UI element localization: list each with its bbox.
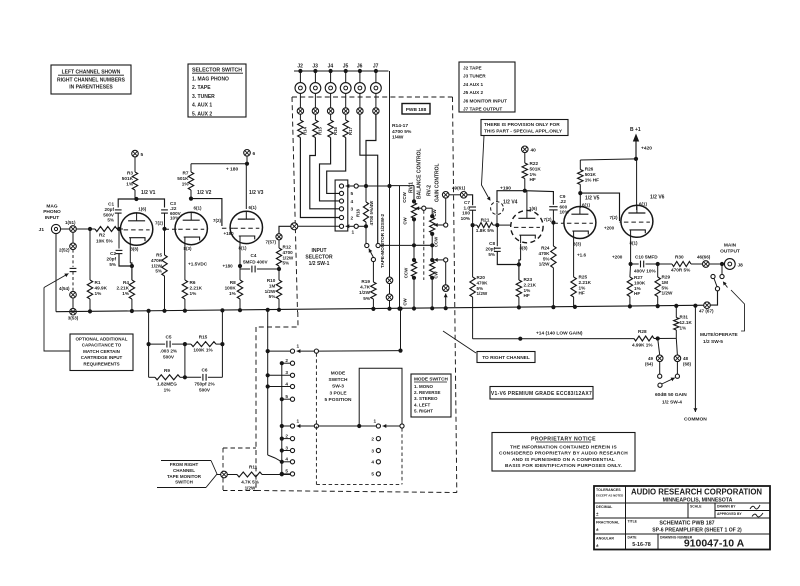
svg-text:C10 5MFD: C10 5MFD — [635, 255, 658, 260]
node J5 bus junction — [344, 69, 348, 73]
switch SW-3 pole2 wiper — [297, 425, 315, 427]
switch SW-3 pole3 contact 2 — [376, 437, 380, 441]
wire SW-5 to bus eyelet — [710, 291, 717, 305]
svg-text:J1: J1 — [39, 227, 45, 233]
svg-text:(68): (68) — [683, 361, 692, 366]
svg-text:R30: R30 — [675, 255, 684, 260]
switch SW-3 pole1 contact 2 — [290, 361, 294, 365]
svg-text:SCALE: SCALE — [690, 505, 702, 509]
stub pole2-1 — [282, 425, 291, 427]
capacitor C4 — [240, 268, 250, 270]
svg-text:R20: R20 — [477, 275, 486, 280]
svg-text:R24: R24 — [541, 246, 550, 251]
svg-text:400V 10%: 400V 10% — [634, 269, 656, 274]
svg-text:J8: J8 — [738, 263, 744, 269]
svg-text:CW: CW — [403, 297, 408, 305]
svg-text:HF: HF — [524, 293, 530, 298]
feedthrough eyelet 5 — [132, 150, 139, 157]
wire supply rail to R26 — [580, 159, 636, 160]
svg-text:1/2 V2: 1/2 V2 — [197, 190, 212, 196]
node V2 grid — [162, 227, 166, 231]
resistor R29 — [657, 264, 659, 277]
svg-text:1/2W: 1/2W — [283, 255, 294, 260]
svg-text:4700 5%: 4700 5% — [392, 129, 412, 135]
wire main ground bus — [56, 305, 707, 312]
wire J1 to feedthrough 1(51) — [61, 228, 70, 230]
svg-text:HF: HF — [579, 291, 585, 296]
svg-text:R15: R15 — [318, 127, 323, 135]
svg-text:1/2W: 1/2W — [539, 262, 550, 267]
wire C7 to R21 node — [472, 210, 474, 225]
triode V2 plate — [190, 212, 192, 220]
svg-text:B +1: B +1 — [630, 127, 641, 133]
svg-text:5-16-78: 5-16-78 — [632, 542, 651, 548]
feedthrough eyelet 3(53) — [70, 308, 77, 315]
feedthrough eyelet right channel gain — [442, 285, 449, 292]
resistor R30 — [672, 262, 691, 267]
potentiometer RV-1 upper wiper — [416, 207, 422, 209]
svg-text:470K: 470K — [539, 251, 551, 256]
svg-text:MAIN: MAIN — [724, 243, 737, 249]
svg-text:1(51): 1(51) — [65, 220, 76, 225]
potentiometer RV-1 upper element — [413, 186, 415, 203]
wire J6 below feedthrough — [359, 114, 361, 120]
svg-text:J4: J4 — [328, 64, 334, 70]
svg-text:SCHEMATIC PWB 187: SCHEMATIC PWB 187 — [659, 521, 714, 527]
triode V5 plate — [579, 206, 581, 214]
wire J2 below feedthrough — [299, 114, 301, 120]
svg-text:3(53): 3(53) — [68, 316, 79, 321]
jack J8 main output — [724, 259, 735, 270]
svg-text:5 POSITION: 5 POSITION — [325, 397, 352, 403]
resistor R25 — [571, 277, 576, 297]
wire to SW-4 eyelet a — [658, 339, 660, 356]
svg-text:J7: J7 — [373, 64, 379, 70]
svg-text:5: 5 — [141, 152, 144, 158]
wire riser to ground bus — [389, 301, 391, 311]
svg-text:TITLE: TITLE — [628, 520, 638, 524]
triode V5 cathode — [572, 231, 588, 234]
svg-text:49(61): 49(61) — [452, 186, 466, 191]
svg-text:SP-6 PREAMPLIFIER (SHEET 1 O: SP-6 PREAMPLIFIER (SHEET 1 OF 2) — [652, 528, 742, 534]
svg-text:1: 1 — [297, 344, 300, 349]
svg-text:1%: 1% — [126, 182, 134, 187]
wire flag to eyelet — [217, 474, 221, 476]
switch SW-3 pole1 contact 4 — [290, 384, 294, 388]
stub pole1-3 — [268, 374, 291, 376]
resistor R15 eq — [191, 342, 216, 347]
svg-text:10%: 10% — [461, 216, 471, 221]
svg-text:SW-3: SW-3 — [332, 384, 344, 390]
svg-text:R19: R19 — [361, 279, 370, 284]
svg-text:OUTPUT: OUTPUT — [720, 248, 740, 254]
grid cap V4 (dashed provision) — [491, 202, 504, 215]
switch SW-2 wiper — [371, 257, 375, 261]
svg-text:100K: 100K — [634, 280, 646, 285]
switch SW-3 pole1 wiper — [297, 350, 315, 352]
capacitor C8 — [496, 225, 498, 246]
svg-text:LEFT CHANNEL SHOWN: LEFT CHANNEL SHOWN — [62, 70, 121, 76]
wire optional capacitance note — [44, 288, 70, 352]
svg-text:R11: R11 — [249, 465, 258, 470]
jack J7 connector — [375, 71, 377, 83]
svg-text:501K: 501K — [530, 166, 542, 171]
bus junction — [517, 305, 521, 309]
stub pole1-4 — [268, 386, 291, 388]
node J3 bus junction — [313, 69, 317, 73]
triode V3 grid — [233, 227, 259, 229]
svg-text:SELECTOR SWITCH: SELECTOR SWITCH — [192, 68, 242, 74]
svg-text:V1-V6 PREMIUM GRADE ECC83/12A: V1-V6 PREMIUM GRADE ECC83/12AX7 — [491, 391, 592, 397]
svg-text:+180: +180 — [223, 264, 234, 269]
svg-text:3. TUNER: 3. TUNER — [192, 94, 215, 100]
switch SW-1 contact 1 — [339, 224, 343, 228]
switch SW-3 pole2 contact 4 — [290, 460, 294, 464]
svg-text:1/2 SW-4: 1/2 SW-4 — [662, 400, 682, 406]
svg-text:4: 4 — [285, 381, 288, 386]
feedthrough eyelet 40 — [522, 146, 529, 153]
switch SW-1 input selector body — [335, 180, 348, 231]
svg-text:5: 5 — [285, 469, 288, 474]
svg-text:SELECTOR: SELECTOR — [305, 255, 333, 261]
capacitor C5 — [149, 343, 166, 345]
feedthrough eyelet tape return — [221, 471, 228, 478]
svg-text:R16: R16 — [333, 127, 338, 135]
switch SW-1 contact 5 — [339, 191, 343, 195]
svg-text:1%: 1% — [524, 288, 532, 293]
node V4 plate supply — [523, 189, 527, 193]
label PWB 188 — [402, 104, 430, 115]
switch SW-5 contact b — [720, 274, 724, 278]
bus junction — [397, 307, 401, 311]
svg-text:20pf: 20pf — [486, 247, 496, 252]
feedthrough eyelet 2(52) — [72, 232, 74, 243]
wire gain wiper up to feedthrough — [445, 198, 447, 223]
leader to right channel note — [443, 331, 476, 353]
svg-text:MODE SWITCH: MODE SWITCH — [414, 377, 448, 382]
wire J4 to feedthrough — [330, 93, 332, 107]
svg-text:5%: 5% — [107, 218, 114, 223]
note box: to right channel — [477, 352, 535, 363]
svg-text:5%: 5% — [543, 256, 550, 261]
switch SW-4 wiper contact — [658, 383, 662, 387]
svg-text:1% HF: 1% HF — [585, 177, 599, 182]
svg-text:MATCH CERTAIN: MATCH CERTAIN — [83, 349, 120, 354]
feedthrough eyelet at board edge — [291, 223, 298, 230]
wire J4 below feedthrough — [330, 114, 332, 120]
wire SW-2 to balance control — [380, 244, 414, 246]
feedthrough eyelet below J4 — [327, 108, 333, 114]
triode V2 grid — [178, 228, 204, 230]
wire EQ network left riser — [148, 311, 150, 377]
svg-text:3: 3 — [351, 207, 354, 213]
svg-text:.003 2%: .003 2% — [160, 349, 178, 354]
wire V6 plate lead — [636, 159, 638, 210]
svg-text:R3: R3 — [127, 171, 133, 176]
wire V5 cathode — [573, 239, 575, 277]
svg-text:4700 5%/4W: 4700 5%/4W — [369, 200, 374, 226]
triode V1 cathode — [129, 238, 145, 241]
svg-text:J7 TAPE OUTPUT: J7 TAPE OUTPUT — [463, 107, 502, 112]
svg-text:49: 49 — [648, 356, 654, 361]
triode V3 envelope — [230, 211, 262, 243]
note box: proprietary notice — [492, 433, 635, 472]
title block frame — [594, 486, 770, 550]
wire V5 plate lead — [579, 193, 581, 208]
wire J3 to selector contact 3 — [310, 138, 340, 209]
svg-text:2.21K: 2.21K — [116, 286, 129, 291]
wire balance left rail — [399, 186, 401, 310]
svg-text:500V: 500V — [199, 388, 211, 393]
svg-text:2(52): 2(52) — [59, 248, 70, 253]
potentiometer RV-1 lower element (right channel) — [413, 245, 415, 261]
svg-text:J4 AUX 1: J4 AUX 1 — [463, 82, 484, 87]
svg-text:4700: 4700 — [283, 250, 294, 255]
resistor R1 — [89, 229, 91, 280]
arrow pointing to optional capacitor — [44, 274, 69, 288]
svg-text:3(8): 3(8) — [130, 247, 139, 252]
wire wiper bottom node — [358, 225, 366, 227]
wire mode feed riser a — [267, 310, 269, 455]
wire wiper to gain pot — [426, 207, 432, 209]
stub pole2-5 — [282, 473, 291, 475]
svg-text:12.1K: 12.1K — [680, 320, 693, 325]
node V5 grid — [551, 220, 555, 224]
triode V6 plate — [636, 205, 638, 213]
svg-text:1: 1 — [352, 230, 355, 236]
svg-text:R7: R7 — [183, 171, 189, 176]
wire feedback line +14 — [473, 338, 634, 340]
svg-text:CONSIDERED PROPRIETARY BY AUDI: CONSIDERED PROPRIETARY BY AUDIO RESEARCH — [499, 451, 628, 457]
svg-text:1/2 V5: 1/2 V5 — [585, 196, 600, 202]
svg-text:(64): (64) — [645, 361, 654, 366]
svg-text:1(6): 1(6) — [529, 206, 538, 211]
wire V2 cathode — [184, 245, 186, 280]
wire R30 to output eyelet — [691, 263, 702, 265]
svg-text:4: 4 — [285, 457, 288, 462]
wire to SW-4 eyelet b — [676, 338, 677, 355]
resistor R14 — [298, 120, 303, 138]
triode V1 envelope — [120, 213, 152, 245]
switch SW-1 wiper top — [346, 185, 357, 187]
svg-text:J6: J6 — [357, 64, 363, 70]
svg-text:MUTE/OPERATE: MUTE/OPERATE — [700, 332, 739, 338]
potentiometer RV-2 lower wiper — [434, 259, 444, 261]
dashed PWB board outline lower-left edge — [255, 327, 257, 491]
wire input line — [76, 228, 95, 230]
stub pole2-3 — [282, 450, 291, 452]
svg-text:5%: 5% — [488, 252, 495, 257]
svg-text:8(3): 8(3) — [573, 242, 582, 247]
feedthrough eyelet below J6 — [357, 108, 363, 114]
svg-text:5: 5 — [285, 394, 288, 399]
resistor R2 — [95, 227, 117, 232]
svg-text:MODE: MODE — [331, 371, 346, 377]
node V1 grid — [117, 227, 121, 231]
jack J6 connector — [359, 71, 361, 83]
resistor R18 — [365, 186, 367, 202]
feedthrough eyelet on riser upper — [386, 277, 393, 284]
node V4 grid — [495, 223, 499, 227]
switch SW-4 contact a — [659, 362, 661, 374]
node tape output feed — [277, 267, 281, 271]
svg-text:1%: 1% — [634, 286, 642, 291]
triode V3 cathode — [239, 236, 255, 239]
svg-text:R18: R18 — [355, 208, 360, 216]
svg-text:60dB 50 GAIN: 60dB 50 GAIN — [655, 392, 687, 398]
switch SW-4 contact b — [676, 362, 678, 374]
triode V4 grid — [514, 226, 540, 228]
stub pole2-2 — [282, 438, 291, 440]
svg-text:5%: 5% — [155, 269, 162, 274]
title block inner lines — [594, 502, 770, 504]
note box: selector switch legend — [188, 64, 246, 117]
triode V5 envelope — [564, 207, 596, 239]
svg-text:1%: 1% — [122, 291, 130, 296]
svg-text:R9: R9 — [164, 368, 170, 373]
svg-text:1/2W: 1/2W — [477, 291, 488, 296]
svg-text:FROM RIGHT: FROM RIGHT — [170, 462, 199, 467]
wire V1 cathode — [129, 246, 131, 263]
svg-text:4. AUX 1: 4. AUX 1 — [192, 103, 212, 109]
svg-text:HF: HF — [530, 177, 536, 182]
wire jack bus drop to selector area — [389, 71, 391, 186]
svg-text:4.7K: 4.7K — [360, 285, 371, 290]
svg-text:+420: +420 — [641, 146, 652, 152]
svg-text:DECIMAL: DECIMAL — [596, 505, 613, 509]
svg-text:1%: 1% — [182, 182, 190, 187]
svg-text:R8: R8 — [230, 280, 236, 285]
resistor R21 — [477, 223, 493, 228]
svg-text:INPUT: INPUT — [312, 248, 327, 254]
svg-text:EXCEPT AS NOTED: EXCEPT AS NOTED — [596, 494, 623, 498]
jack J2 connector — [299, 71, 301, 83]
resistor R3 — [134, 157, 136, 172]
svg-text:CAPACITANCE TO: CAPACITANCE TO — [82, 343, 122, 348]
switch SW-3 pole3 contact 1 — [376, 424, 380, 428]
svg-text:APPROVED BY: APPROVED BY — [717, 512, 742, 516]
svg-text:R6: R6 — [190, 280, 196, 285]
bus junction — [238, 308, 242, 312]
capacitor C1 feedback — [118, 199, 136, 208]
svg-text:CHANNEL: CHANNEL — [173, 468, 195, 473]
wire J7 from selector wiper node — [366, 114, 376, 186]
svg-text:R21: R21 — [481, 218, 490, 224]
svg-text:J2: J2 — [297, 64, 303, 70]
svg-text:R25: R25 — [579, 275, 588, 280]
wire V2 plate to V3 grid — [191, 199, 222, 226]
node J2 bus junction — [298, 69, 302, 73]
resistor R9 — [149, 376, 155, 378]
switch SW-3 pole3 contact 3 — [376, 448, 380, 452]
svg-text:RV-2: RV-2 — [427, 185, 433, 196]
bus junction — [656, 304, 660, 308]
wire between eyelets — [449, 194, 460, 196]
svg-text:1/2W: 1/2W — [151, 263, 162, 268]
svg-text:46(66): 46(66) — [697, 255, 711, 260]
svg-text:C2: C2 — [110, 251, 116, 256]
svg-text:R15: R15 — [199, 335, 208, 340]
wire grid cap to grid node — [496, 215, 498, 226]
svg-text:DATE: DATE — [628, 536, 638, 540]
resistor R22 — [524, 153, 526, 163]
bus junction — [551, 305, 555, 309]
svg-text:CW: CW — [432, 208, 437, 216]
wire pole1 output riser — [400, 309, 402, 351]
bus junction — [573, 305, 577, 309]
svg-text:47 (67): 47 (67) — [699, 309, 714, 314]
svg-text:J6 MONITOR INPUT: J6 MONITOR INPUT — [463, 98, 507, 103]
resistor R24 — [552, 223, 554, 247]
wire wiper top to R18 — [358, 185, 389, 187]
svg-text:1/2 V3: 1/2 V3 — [249, 190, 264, 196]
svg-text:470R 5%: 470R 5% — [671, 268, 691, 273]
svg-text:+1.6: +1.6 — [577, 253, 587, 258]
svg-text:100K 1%: 100K 1% — [193, 348, 213, 353]
svg-text:TAPE MONITOR: TAPE MONITOR — [167, 474, 202, 479]
note box: provision special application — [481, 120, 568, 136]
svg-text:1%: 1% — [579, 285, 587, 290]
resistor R15 — [313, 120, 318, 138]
wire to J8 — [709, 263, 724, 265]
note box: mode switch legend — [411, 374, 451, 417]
svg-text:501K: 501K — [122, 176, 134, 181]
bus junction — [147, 309, 151, 313]
svg-text:1/2 V1: 1/2 V1 — [141, 190, 156, 196]
resistor R17 — [343, 120, 348, 138]
svg-text:BALANCE CONTROL: BALANCE CONTROL — [417, 148, 423, 199]
wire V4 plate — [526, 191, 528, 210]
bus junction — [88, 309, 92, 313]
svg-text:+1.5VDC: +1.5VDC — [188, 262, 208, 267]
dashed inner mode switch box bottom — [316, 483, 402, 485]
resistor R27 — [629, 264, 632, 277]
wire V3 cathode — [239, 244, 241, 269]
switch SW-1 contact 4 — [339, 199, 343, 203]
resistor R26 — [578, 170, 583, 185]
svg-text:+ 180: + 180 — [226, 167, 239, 173]
svg-text:4.99K 1%: 4.99K 1% — [632, 343, 653, 348]
wire lower wiper to right channel — [445, 262, 447, 285]
wire J5 to selector contact 5 — [327, 138, 346, 194]
bus junction — [220, 308, 224, 312]
wire V3 plate to supply — [245, 164, 247, 209]
svg-text:10K 5%: 10K 5% — [96, 239, 114, 244]
svg-text:R14: R14 — [303, 127, 308, 135]
svg-text:1%: 1% — [530, 172, 538, 177]
dashed PWB board outline left edge — [292, 97, 298, 312]
svg-text:ANGULAR: ANGULAR — [596, 537, 614, 541]
svg-text:3: 3 — [285, 370, 288, 375]
svg-text:RIGHT CHANNEL NUMBERS: RIGHT CHANNEL NUMBERS — [57, 78, 126, 84]
wire common return — [694, 306, 696, 412]
node SW-5 tap on output line — [720, 262, 724, 266]
note box: left channel shown — [51, 65, 131, 94]
svg-text:PHONO: PHONO — [43, 209, 61, 215]
svg-text:2.21K: 2.21K — [524, 282, 537, 287]
feedthrough eyelet below J5 — [343, 108, 349, 114]
wire tape out to board edge — [279, 226, 291, 233]
svg-text:PWB 188: PWB 188 — [406, 107, 427, 113]
svg-text:R29: R29 — [662, 275, 671, 280]
switch SW-5 wiper contact — [715, 287, 719, 291]
node V5 plate — [578, 191, 582, 195]
svg-text:2: 2 — [285, 358, 288, 363]
svg-text:R1: R1 — [95, 280, 101, 285]
jack J5 connector — [345, 71, 347, 83]
resistor R7 — [190, 164, 192, 172]
svg-text:THERE IS PROVISION ONLY FOR: THERE IS PROVISION ONLY FOR — [484, 122, 560, 128]
